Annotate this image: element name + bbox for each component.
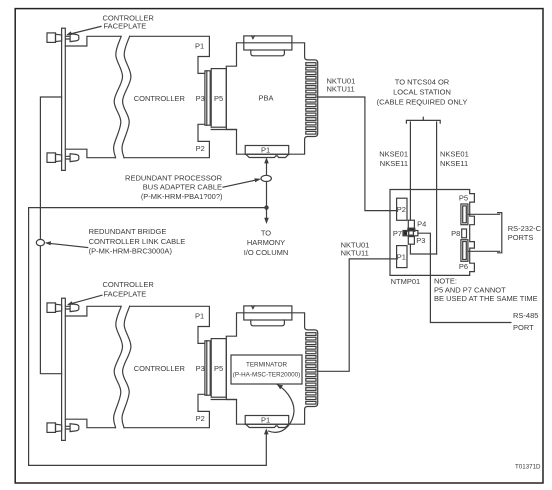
svg-text:NKSE11: NKSE11 [440,159,468,168]
leader redundant processor cable [223,178,261,187]
svg-text:P6: P6 [459,262,468,271]
svg-text:P2: P2 [196,414,205,423]
terminator box [231,355,302,384]
svg-text:(P-MK-HRM-BRC3000A): (P-MK-HRM-BRC3000A) [89,246,173,255]
connector P5 (bottom) [211,339,226,398]
DIN connector top (bottom PBA) [244,306,292,326]
connector P1 bottom (top PBA) [245,146,289,158]
svg-text:NKTU11: NKTU11 [341,249,369,258]
svg-text:P5: P5 [214,94,223,103]
cable bracket (to NTCS04) [406,117,440,123]
arrowhead up into top PBA P1 [264,157,269,163]
leader redundant bridge cable [45,241,88,247]
svg-text:CONTROLLER: CONTROLLER [134,94,186,103]
comb teeth (bottom PBA) [306,333,316,404]
svg-text:P5 AND P7 CANNOT: P5 AND P7 CANNOT [434,285,506,294]
wire P6 to RS-232 bracket [468,250,500,252]
connector P1 (NTMP01) [397,246,407,268]
svg-text:P3: P3 [196,364,205,373]
RS-232 bracket [498,213,502,253]
svg-text:REDUNDANT BRIDGE: REDUNDANT BRIDGE [89,227,167,236]
svg-text:TERMINATOR: TERMINATOR [246,362,287,369]
cable ellipse on left wire [36,239,44,245]
controller faceplate (top) bar [62,28,66,170]
svg-text:P3: P3 [416,236,425,245]
svg-text:P2: P2 [196,144,205,153]
controller break lines (bottom) [114,306,131,427]
NKSE cable left [409,122,411,220]
svg-text:I/O COLUMN: I/O COLUMN [244,248,289,257]
faceplate screw lower (top assembly) [47,153,79,163]
svg-text:(P-HA-MSC-TER20000): (P-HA-MSC-TER20000) [233,371,301,378]
connector P3 (top) [205,71,210,125]
controller faceplate (bottom) bar [62,298,66,440]
svg-text:NOTE:: NOTE: [434,276,457,285]
svg-text:NTMP01: NTMP01 [391,277,421,286]
svg-text:P5: P5 [459,193,468,202]
svg-text:RS-232-C: RS-232-C [508,224,542,233]
svg-text:(CABLE REQUIRED ONLY: (CABLE REQUIRED ONLY [377,98,468,107]
svg-text:T01371D: T01371D [515,464,541,471]
svg-text:P7: P7 [393,229,402,238]
svg-text:BUS ADAPTER CABLE: BUS ADAPTER CABLE [143,183,222,192]
wire bottom PBA comb to NTMP01 P1 [318,259,397,371]
PBA board (top) outline with card-edge comb [211,43,318,154]
wire P3 stub to RS-485 junction [410,244,436,254]
connector P1 bottom (bottom PBA) [245,416,289,428]
connector P5 (top) [211,69,226,128]
svg-text:P2: P2 [397,205,406,214]
wire top PBA P1 down to harmony [266,161,268,218]
controller (bottom) outline [65,306,209,427]
svg-text:NKSE11: NKSE11 [380,159,408,168]
connector P3 (bottom) [205,341,210,395]
svg-text:P1: P1 [397,253,406,262]
controller (top) outline [65,36,209,157]
faceplate screw upper (top assembly) [47,33,79,43]
NKSE cable right [436,122,438,254]
NTMP01 termination unit box with edge tabs [390,190,474,276]
PBA board (bottom) outline with card-edge comb [211,313,318,424]
svg-text:P1: P1 [261,416,270,425]
svg-text:TO: TO [261,229,271,238]
connector P4 (NTMP01) [408,220,414,228]
svg-text:P1: P1 [261,146,270,155]
faceplate screw upper (bottom assembly) [47,303,79,313]
comb teeth (top PBA) [306,63,316,134]
arrowhead up into bottom PBA P1 [264,428,269,434]
connector P6 (NTMP01) [461,240,468,262]
svg-text:PBA: PBA [259,93,274,102]
svg-text:REDUNDANT PROCESSOR: REDUNDANT PROCESSOR [125,173,223,182]
svg-text:P5: P5 [214,364,223,373]
connector P5 (NTMP01) [461,204,468,225]
junction dot [264,205,268,209]
svg-text:CONTROLLER LINK CABLE: CONTROLLER LINK CABLE [89,237,186,246]
svg-text:FACEPLATE: FACEPLATE [104,22,147,31]
svg-text:NKTU11: NKTU11 [327,85,355,94]
connector P7 (NTMP01) [403,231,418,236]
svg-text:FACEPLATE: FACEPLATE [104,290,147,299]
svg-text:P1: P1 [195,312,204,321]
svg-text:RS-485: RS-485 [513,311,538,320]
cable ellipse on PBA wire [261,175,271,181]
connector P2 (NTMP01) [397,198,407,220]
svg-text:PORT: PORT [513,323,534,332]
DIN connector top (top PBA) [244,36,292,56]
jumper white center [409,231,414,235]
connector P3 (NTMP01) [408,237,414,245]
leader controller faceplate (bottom) [67,295,102,305]
connector P8 (NTMP01) [462,229,467,238]
svg-text:P1: P1 [195,42,204,51]
curved leader terminator to P1 [269,384,294,432]
svg-text:NKSE01: NKSE01 [379,150,408,159]
svg-text:CONTROLLER: CONTROLLER [103,280,155,289]
svg-text:NKSE01: NKSE01 [440,150,469,159]
svg-text:P3: P3 [196,94,205,103]
faceplate screw lower (bottom assembly) [47,423,79,433]
wire bridge link horizontal + left drop + bottom run [29,208,267,466]
controller break lines (top) [114,36,131,157]
svg-text:(P-MK-HRM-PBA1?00?): (P-MK-HRM-PBA1?00?) [141,192,223,201]
svg-text:CONTROLLER: CONTROLLER [134,364,186,373]
wire top PBA comb to NTMP01 P2 [318,97,397,211]
svg-text:P4: P4 [417,219,426,228]
svg-text:HARMONY: HARMONY [247,238,285,247]
svg-text:TO NTCS04 OR: TO NTCS04 OR [395,77,450,86]
wire P7 to RS-485 port [418,233,511,322]
jumper dark bar [408,228,415,231]
leader controller faceplate (top) [66,26,101,35]
svg-text:BE USED AT THE SAME TIME: BE USED AT THE SAME TIME [434,294,538,303]
wire P5 to RS-232 bracket [468,213,500,215]
svg-text:P8: P8 [451,229,460,238]
svg-text:PORTS: PORTS [508,233,534,242]
svg-text:LOCAL STATION: LOCAL STATION [393,88,451,97]
arrowhead down to harmony [264,218,269,224]
wire faceplate-left vertical (redundant link, left column x=40.4) [40,97,61,374]
